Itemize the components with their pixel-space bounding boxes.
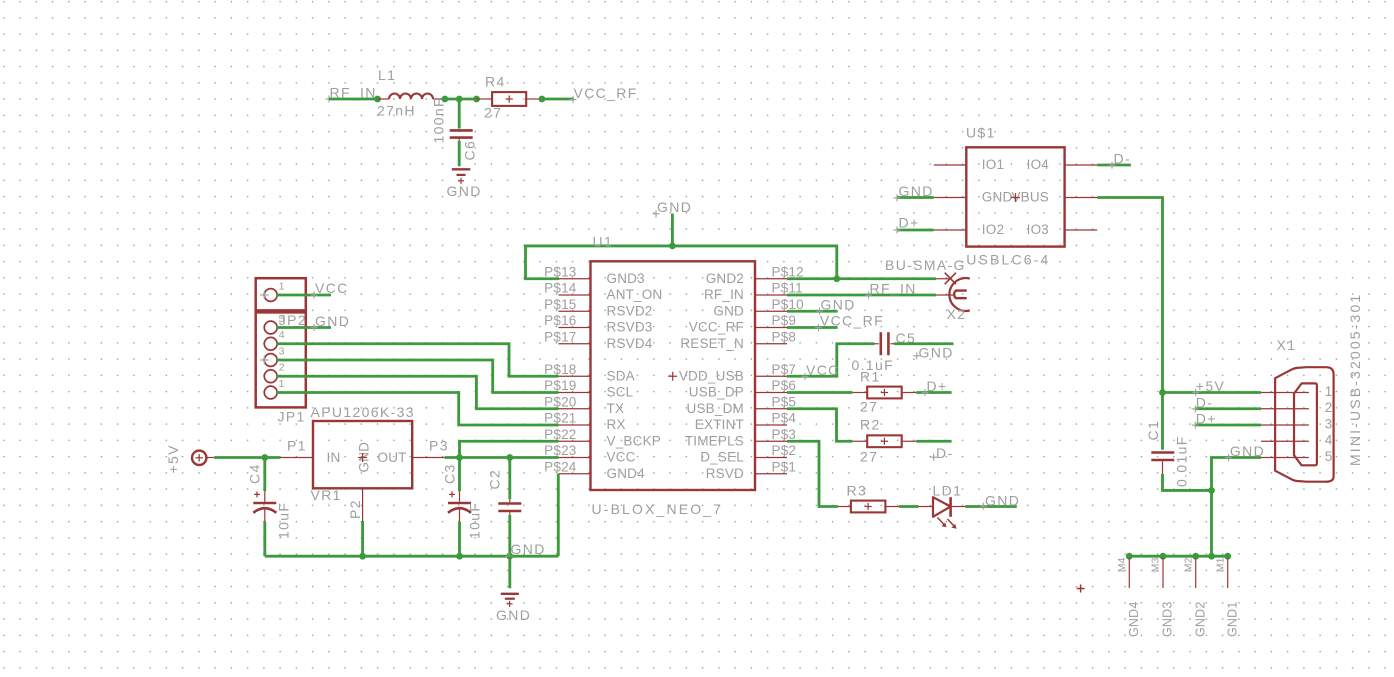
ground symbol (rail): [501, 594, 519, 607]
JP pin number 2: [279, 362, 285, 374]
wire C3 bottom: [458, 522, 461, 557]
label BU-SMA-G: [885, 257, 966, 273]
svg-text:P$17: P$17: [544, 329, 576, 344]
U1 pin P$11 stub: [755, 294, 787, 296]
wire C4 top: [263, 458, 266, 492]
wire D+ to X1 pin3: [1196, 424, 1261, 427]
wire JP2 pin5 to GND: [277, 326, 331, 329]
capacitor C2: [498, 499, 521, 515]
wire P$10 GND stub: [787, 310, 838, 313]
wire JP2 pin2 to U1 TX: [277, 376, 559, 409]
X1 pin number 4: [1325, 433, 1333, 448]
svg-text:GND2: GND2: [1193, 601, 1207, 637]
svg-text:GND: GND: [919, 344, 954, 360]
wire R1 to D+: [916, 391, 951, 394]
label APU1206K-33: [311, 404, 415, 420]
junction rail drop: [1208, 553, 1215, 560]
value 27nH: [377, 103, 416, 119]
wire P$5 to R2: [787, 409, 853, 442]
label MINI-USB-32005-301: [1347, 293, 1363, 466]
U1 pin label P$18: [544, 362, 576, 377]
svg-text:D+: D+: [899, 215, 920, 231]
capacitor C1: [1151, 453, 1174, 475]
capacitor C6: [450, 130, 473, 140]
svg-text:VDD_USB: VDD_USB: [679, 368, 744, 383]
capacitor C5: [875, 332, 895, 355]
svg-text:JP2: JP2: [279, 312, 307, 328]
svg-text:R1: R1: [860, 369, 881, 385]
wire R4 to VCC_RF: [542, 98, 574, 101]
resistor R3: [838, 501, 899, 513]
label USBLC6-4: [966, 252, 1050, 268]
svg-text:GND4: GND4: [607, 466, 646, 481]
svg-text:L1: L1: [378, 67, 396, 83]
U1 pin name USB_DP: [689, 385, 744, 400]
net label D-: [930, 445, 953, 461]
wire GND to U$1: [897, 196, 934, 199]
value 0.1uF: [852, 357, 895, 373]
net label VCC (P$7): [802, 362, 840, 380]
svg-text:P$22: P$22: [544, 427, 576, 442]
U1 pin P$3 stub: [755, 440, 787, 442]
svg-text:10uF: 10uF: [276, 502, 292, 539]
U1 pin name V_BCKP: [607, 433, 661, 448]
X2 center contact: [936, 291, 967, 299]
svg-text:D-: D-: [936, 445, 953, 461]
X1 pin 3 lead: [1261, 424, 1309, 426]
wire D+ to U$1: [897, 229, 934, 232]
svg-text:VCC_RF: VCC_RF: [574, 85, 638, 101]
capacitor C4 (polarized): [253, 491, 276, 521]
svg-text:C3: C3: [442, 463, 458, 484]
net label GND (U$1): [894, 183, 934, 201]
wire C6 to GND: [458, 141, 461, 167]
value 27 (R2): [860, 449, 878, 465]
label R1: [860, 369, 881, 385]
JP pin circle y=343.75: [264, 337, 277, 350]
U$1 stub right IO4: [1065, 164, 1098, 166]
wire GND label drop: [671, 214, 674, 246]
svg-text:IN: IN: [327, 450, 341, 465]
wire C4 bottom: [263, 522, 266, 557]
junction rail C2: [506, 553, 513, 560]
svg-text:10uF: 10uF: [467, 502, 483, 539]
VR1 pin name IN: [327, 450, 341, 465]
U$1 stub right IO3: [1065, 229, 1098, 231]
U1 pin label P$13: [544, 264, 576, 279]
label C2: [487, 469, 503, 490]
svg-text:1: 1: [1325, 384, 1333, 399]
U1 pin label P$6: [772, 378, 797, 393]
mount rail wire: [1126, 555, 1229, 558]
svg-text:R3: R3: [847, 483, 868, 499]
VR1 origin cross: [358, 453, 367, 462]
U1 pin label P$19: [544, 378, 576, 393]
U1 pin label P$17: [544, 329, 576, 344]
svg-text:TX: TX: [607, 401, 625, 416]
svg-text:RX: RX: [607, 417, 626, 432]
svg-text:P$21: P$21: [544, 411, 576, 426]
GND rail: [265, 555, 559, 558]
U1 pin label P$3: [772, 427, 797, 442]
svg-text:EXTINT: EXTINT: [695, 417, 744, 432]
U1 pin label P$23: [544, 443, 576, 458]
svg-text:VCC: VCC: [806, 362, 840, 378]
svg-text:VCC: VCC: [607, 450, 636, 465]
wire to U1 V_BCKP: [460, 441, 559, 457]
svg-text:27: 27: [484, 105, 502, 121]
U1 pin P$16 stub: [559, 327, 591, 329]
svg-text:P$1: P$1: [772, 459, 797, 474]
U1 pin label P$2: [772, 443, 797, 458]
svg-text:C2: C2: [487, 469, 503, 490]
U$1 origin cross: [1011, 193, 1020, 202]
JP1 origin cross: [260, 291, 269, 300]
wire LD1 to GND: [965, 505, 1017, 508]
junction rail C3: [456, 553, 463, 560]
VR1 pin label P2: [347, 499, 363, 519]
U1 pin label P$9: [772, 313, 797, 328]
svg-text:P$7: P$7: [772, 362, 797, 377]
U1 origin cross: [668, 372, 677, 381]
U1 pin P$10 stub: [755, 310, 787, 312]
X1 pin number 2: [1325, 400, 1333, 415]
label R4: [485, 74, 506, 90]
svg-text:P$13: P$13: [544, 264, 576, 279]
svg-text:P$9: P$9: [772, 313, 797, 328]
JP pin number 5: [279, 313, 285, 325]
label U1: [593, 234, 614, 250]
svg-text:RSVD4: RSVD4: [607, 336, 653, 351]
junction C4 tap: [261, 454, 268, 461]
svg-text:GND: GND: [315, 313, 350, 329]
JP pin number 4: [279, 329, 285, 341]
svg-text:0.01uF: 0.01uF: [1174, 435, 1190, 487]
U1 pin P$21 stub: [559, 424, 591, 426]
LD1 emission arrows: [938, 518, 957, 529]
svg-text:RSVD2: RSVD2: [607, 303, 653, 318]
wire GND to X1 pin5: [1212, 458, 1262, 557]
wire P$9 VCC_RF stub: [787, 326, 838, 329]
connector JP2 body: [256, 312, 306, 407]
VR1 pin label P3: [429, 438, 449, 454]
U1 pin P$13 stub: [559, 278, 591, 280]
junction R4 pin2: [539, 96, 546, 103]
X1 pin number 5: [1325, 449, 1333, 464]
svg-text:X1: X1: [1277, 337, 1297, 353]
svg-text:D+: D+: [1196, 411, 1217, 427]
U1 pin label P$15: [544, 297, 576, 312]
wire R2 to D-: [916, 440, 951, 443]
svg-text:GND: GND: [511, 541, 546, 557]
mount pin label M1: [1214, 557, 1226, 572]
junction rail P2: [359, 553, 366, 560]
svg-text:M4: M4: [1116, 557, 1128, 572]
U1 pin P$5 stub: [755, 408, 787, 410]
svg-text:3: 3: [279, 346, 285, 358]
svg-text:BU-SMA-G: BU-SMA-G: [885, 257, 966, 273]
pad name GND2: [1193, 601, 1207, 637]
svg-text:R2: R2: [860, 417, 881, 433]
LED LD1: [919, 497, 966, 517]
VR1 pin name OUT: [378, 450, 407, 465]
U1 pin P$7 stub: [755, 375, 787, 377]
svg-text:MINI-USB-32005-301: MINI-USB-32005-301: [1347, 293, 1363, 466]
U1 pin name RF_IN: [704, 287, 744, 302]
junction rail M4: [1126, 553, 1133, 560]
svg-text:GND: GND: [1230, 443, 1265, 459]
svg-text:P$4: P$4: [772, 411, 797, 426]
junction OUT-C2: [506, 454, 513, 461]
X1 pin 2 lead: [1261, 408, 1309, 410]
svg-text:GND: GND: [821, 296, 856, 312]
U1 pin name VCC: [607, 450, 636, 465]
net label GND (X1): [1225, 443, 1265, 461]
label GND (bottom): [496, 607, 531, 623]
svg-text:LD1: LD1: [933, 483, 963, 499]
label C1: [1145, 420, 1161, 441]
mount pin M3 stub: [1162, 558, 1164, 588]
U1 pin P$23 stub: [559, 457, 591, 459]
junction C1-GND: [1208, 487, 1215, 494]
U1 pin label P$11: [772, 281, 803, 296]
label X1: [1277, 337, 1297, 353]
wire P$6 to R1: [787, 391, 853, 394]
U1 pin label P$8: [772, 329, 797, 344]
wire JP2 pin1 to U1 RX: [277, 393, 559, 426]
net label D- (X1): [1192, 394, 1213, 412]
svg-text:VCC: VCC: [315, 280, 349, 296]
svg-text:D_SEL: D_SEL: [700, 450, 744, 465]
net label GND (top): [653, 199, 693, 217]
X1 pin 1 lead: [1261, 392, 1309, 394]
net label +5V (X1): [1192, 378, 1225, 396]
JP pin circle y=327.5: [264, 321, 277, 334]
U$1 pin name IO2: [982, 222, 1004, 237]
connector X1 inner: [1294, 383, 1317, 465]
junction R4 pin1: [473, 96, 480, 103]
junction OUT-C3: [456, 454, 463, 461]
svg-text:P$19: P$19: [544, 378, 576, 393]
VR1 pin P1 stub: [280, 457, 313, 459]
value 10uF (C3): [467, 502, 483, 539]
label GND (C6): [447, 183, 482, 199]
U1 pin name VCC_RF: [689, 320, 744, 335]
connector X1 outline: [1275, 367, 1334, 482]
U1 pin name RSVD: [706, 466, 744, 481]
junction rail M1: [1224, 553, 1231, 560]
U1 pin name GND4: [607, 466, 646, 481]
svg-text:C4: C4: [247, 463, 263, 484]
svg-text:C1: C1: [1145, 420, 1161, 441]
net label RF_IN (P$11): [865, 280, 917, 298]
U1 pin P$9 stub: [755, 327, 787, 329]
svg-text:3: 3: [1325, 416, 1333, 431]
svg-text:1: 1: [279, 378, 285, 390]
junction P$12 net: [833, 275, 840, 282]
svg-text:P$5: P$5: [772, 394, 797, 409]
svg-text:RF_IN: RF_IN: [704, 287, 744, 302]
svg-text:RSVD3: RSVD3: [607, 320, 653, 335]
svg-text:GND3: GND3: [1161, 601, 1175, 637]
label U$1: [966, 125, 996, 141]
connector JP1 body: [256, 278, 306, 310]
svg-text:GND: GND: [447, 183, 482, 199]
net label GND (C5): [913, 344, 953, 360]
mount pin M2 stub: [1195, 558, 1197, 588]
svg-text:OUT: OUT: [378, 450, 407, 465]
U1 pin label P$20: [544, 394, 576, 409]
JP pin number 1 (JP2): [279, 378, 285, 390]
svg-text:GND: GND: [657, 199, 692, 215]
label C3: [442, 463, 458, 484]
U$1 pin name GND: [982, 190, 1013, 205]
U1 pin P$17 stub: [559, 343, 591, 345]
JP pin number 1 (JP1): [279, 281, 285, 293]
net label D+ (X1): [1192, 411, 1217, 429]
svg-text:5: 5: [1325, 449, 1333, 464]
svg-text:D-: D-: [1114, 150, 1131, 166]
mount pin label M4: [1116, 557, 1128, 572]
U1 pin P$12 stub: [755, 278, 787, 280]
ground symbol (C6): [452, 169, 471, 184]
junction C6 tap: [456, 96, 463, 103]
JP pin circle y=376.25: [264, 370, 277, 383]
svg-text:GND: GND: [982, 190, 1013, 205]
label C5: [896, 330, 917, 346]
U$1 pin name IO1: [982, 157, 1004, 172]
U1 pin P$15 stub: [559, 310, 591, 312]
junction rail M3: [1160, 553, 1167, 560]
U1 pin name D_SEL: [700, 450, 744, 465]
svg-text:D+: D+: [927, 378, 948, 394]
mount pin label M2: [1182, 557, 1194, 572]
label JP1: [278, 409, 306, 425]
U1 pin name RSVD4: [607, 336, 653, 351]
svg-text:VR1: VR1: [311, 487, 342, 503]
svg-text:GND4: GND4: [1127, 601, 1141, 637]
U1 pin P$24 stub: [559, 473, 591, 475]
X2 shield lead: [936, 273, 956, 285]
junction at L1 pin 1: [374, 96, 381, 103]
U$1 pin name IO3: [1027, 222, 1049, 237]
wire VR1 OUT to U1 VCC: [445, 456, 559, 459]
U1 pin label P$21: [544, 411, 576, 426]
label LD1: [933, 483, 963, 499]
svg-text:SCL: SCL: [607, 385, 634, 400]
JP2 origin cross: [260, 356, 269, 365]
svg-text:C6: C6: [462, 140, 478, 161]
net label GND (P$10): [816, 296, 856, 314]
IC U$1 body: [966, 147, 1064, 246]
label C6: [462, 140, 478, 161]
svg-text:TIMEPLS: TIMEPLS: [685, 433, 744, 448]
wire U1 GND4 drop: [557, 474, 560, 556]
inductor L1: [378, 94, 445, 100]
svg-text:P$6: P$6: [772, 378, 797, 393]
X1 pin 4 lead: [1261, 440, 1309, 442]
U1 pin P$22 stub: [559, 440, 591, 442]
wire D- to X1 pin2: [1196, 407, 1261, 410]
value 27 (R1): [860, 399, 878, 415]
U1 pin label P$24: [544, 459, 577, 474]
svg-text:U$1: U$1: [966, 125, 996, 141]
U$1 pin name VBUS: [1011, 190, 1049, 205]
net label D+: [922, 378, 948, 396]
U1 pin name RSVD3: [607, 320, 653, 335]
svg-text:U-BLOX_NEO_7: U-BLOX_NEO_7: [592, 501, 724, 517]
wire C5 to GND: [894, 342, 954, 345]
svg-text:P$12: P$12: [772, 264, 804, 279]
svg-text:P$10: P$10: [772, 297, 804, 312]
X1 origin cross: [1077, 585, 1085, 593]
value 0.01uF: [1174, 435, 1190, 487]
svg-text:X2: X2: [947, 306, 967, 322]
mount pin label M3: [1150, 557, 1162, 572]
wire P$11 RF_IN to X2: [787, 294, 936, 297]
svg-text:SDA: SDA: [607, 368, 635, 383]
net label GND (rail): [506, 541, 546, 560]
X1 pin number 1: [1325, 384, 1333, 399]
resistor R2: [853, 435, 917, 447]
svg-text:JP1: JP1: [278, 409, 306, 425]
label +5V: [165, 444, 181, 473]
value 100nF: [431, 97, 447, 143]
svg-text:USB_DM: USB_DM: [687, 401, 744, 416]
label L1: [378, 67, 396, 83]
label JP2: [279, 312, 307, 328]
label R3: [847, 483, 868, 499]
U1 pin label P$7: [772, 362, 797, 377]
X1 pin 5 lead: [1261, 457, 1309, 459]
svg-text:VCC_RF: VCC_RF: [820, 313, 884, 329]
JP pin circle y=360: [264, 354, 277, 367]
net label GND (JP2): [311, 313, 351, 331]
mount pin M4 stub: [1128, 558, 1130, 588]
svg-text:VCC_RF: VCC_RF: [689, 320, 744, 335]
svg-text:P2: P2: [347, 499, 363, 519]
svg-text:+5V: +5V: [1196, 378, 1225, 394]
svg-text:RF_IN: RF_IN: [870, 280, 917, 296]
svg-text:GND: GND: [985, 492, 1020, 508]
svg-text:IO2: IO2: [982, 222, 1004, 237]
wire C1 to GND net: [1163, 474, 1212, 490]
value 27 (R4): [484, 105, 502, 121]
net label VCC_RF (P$9): [815, 313, 884, 332]
svg-text:IO4: IO4: [1027, 157, 1050, 172]
U$1 stub left IO1: [934, 164, 967, 166]
svg-text:M2: M2: [1182, 557, 1194, 572]
svg-text:4: 4: [279, 329, 285, 341]
svg-text:P1: P1: [287, 438, 307, 454]
wire VR1 GND to rail: [361, 521, 364, 556]
U1 pin label P$12: [772, 264, 804, 279]
wire P$12 to junction: [787, 277, 837, 280]
svg-text:P$18: P$18: [544, 362, 576, 377]
U1 pin name SCL: [607, 385, 634, 400]
pad name GND1: [1225, 601, 1239, 637]
wire R3 to LD1: [899, 505, 919, 508]
capacitor C3 (polarized): [448, 491, 471, 521]
U$1 stub left GND: [934, 197, 967, 199]
X1 pin number 3: [1325, 416, 1333, 431]
U1 pin label P$5: [772, 394, 797, 409]
U1 pin P$2 stub: [755, 457, 787, 459]
U1 pin P$6 stub: [755, 392, 787, 394]
wire L1 to R4: [445, 98, 477, 101]
svg-text:P$23: P$23: [544, 443, 576, 458]
wire rail to ground: [508, 556, 511, 588]
